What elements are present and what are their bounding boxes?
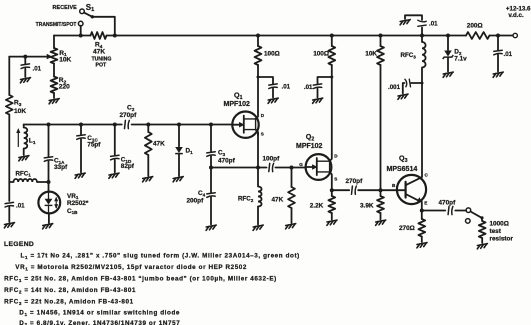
- wire rail to 100ohm2: [331, 36, 333, 47]
- wire feedback horizontal: [211, 167, 267, 169]
- transistor Q3 collector lead: [406, 177, 422, 185]
- diode D1: [175, 147, 183, 153]
- node gate-C3 junction: [209, 123, 213, 127]
- svg-text:47K: 47K: [272, 197, 284, 204]
- svg-text:MPF102: MPF102: [224, 101, 251, 108]
- node rail-100ohm1: [256, 34, 260, 38]
- capacitor 100pf coupling: [269, 163, 274, 171]
- ground below .001: [398, 94, 408, 99]
- svg-text:.01: .01: [429, 21, 438, 28]
- svg-text:.01: .01: [16, 203, 25, 210]
- resistor R4 47K tuning pot: [91, 32, 107, 39]
- svg-text:270Ω: 270Ω: [399, 225, 415, 232]
- wire feedthrough stub up: [421, 28, 423, 36]
- svg-text:test: test: [490, 228, 502, 235]
- ground below .01 right: [493, 72, 503, 77]
- svg-text:VR1 = Motorola R2502/MV2105, 1: VR1 = Motorola R2502/MV2105, 15pf varact…: [15, 264, 247, 271]
- svg-text:resistor: resistor: [490, 235, 514, 242]
- node Q2 drain elbow: [330, 76, 333, 79]
- wire R1 wiper arm: [9, 56, 48, 58]
- wire 47K follower to ground: [291, 208, 293, 223]
- svg-text:200pf: 200pf: [187, 198, 205, 205]
- ground below C1C: [75, 173, 85, 178]
- node rail-switch junction: [113, 34, 117, 38]
- wire elbow to bypass cap 2: [318, 77, 332, 84]
- wire rail to D2: [447, 36, 449, 51]
- svg-text:10K: 10K: [59, 57, 71, 64]
- svg-text:POT: POT: [96, 62, 107, 68]
- wire tank corner to L1: [23, 125, 25, 128]
- node emitter junction: [420, 209, 424, 213]
- wire cap to ground lower left: [8, 207, 10, 222]
- svg-text:.01: .01: [282, 84, 291, 91]
- varactor VR1 diode symbol: [45, 199, 53, 205]
- wire junction to cap .01: [24, 57, 26, 64]
- wire emitter to 470pf: [422, 210, 446, 212]
- varactor VR1 circle: [38, 192, 60, 214]
- wire 47K gate leak upper: [147, 125, 149, 133]
- ground below C1D: [109, 173, 119, 178]
- svg-text:10K: 10K: [14, 108, 26, 115]
- capacitor C2 270pf inline: [125, 120, 130, 128]
- inductor L1 slug tuned: [24, 128, 28, 149]
- transistor Q1 drain-source leads: [244, 119, 256, 130]
- wire 3.9K to ground: [380, 213, 382, 220]
- node rail-transmit junction: [79, 34, 83, 38]
- ground below bypass 1: [268, 98, 278, 103]
- capacitor .01 bypass 1: [269, 84, 277, 89]
- svg-text:S: S: [261, 131, 264, 136]
- wire Q3 emitter down: [421, 202, 423, 211]
- wire Q2 source down: [331, 177, 333, 190]
- capacitor C1D 82pf: [111, 155, 119, 160]
- wire 100ohm1 to elbow: [257, 65, 259, 77]
- ground below C4: [206, 225, 216, 230]
- wire wiper line down to R3: [8, 57, 10, 95]
- svg-text:470pf: 470pf: [439, 200, 457, 207]
- wire main +V rail center segment: [107, 35, 467, 37]
- wire 470pf to test point: [455, 210, 466, 212]
- zener D2: [444, 51, 452, 57]
- svg-text:10K: 10K: [365, 51, 377, 58]
- transistor Q2 channel bar: [316, 158, 318, 175]
- capacitor 470pf output: [448, 206, 453, 214]
- wire elbow to bypass cap 1: [258, 77, 273, 84]
- capacitor C3 470pf: [207, 152, 215, 157]
- wire C1C branch: [80, 125, 82, 135]
- svg-text:LEGEND: LEGEND: [4, 241, 34, 248]
- wire C3 to feedback node: [210, 156, 212, 167]
- ground below 2.2K: [327, 220, 337, 225]
- node C3-C4 junction: [209, 166, 213, 170]
- transistor Q3 MPS6514: [397, 175, 426, 204]
- wire D1 branch: [178, 125, 180, 147]
- wire C1D branch: [114, 125, 116, 156]
- svg-text:.001: .001: [388, 84, 401, 91]
- wire 270ohm branch: [421, 211, 423, 220]
- svg-text:470pf: 470pf: [218, 158, 236, 165]
- wire C3 branch: [210, 125, 212, 152]
- ground below RFC2: [253, 225, 263, 230]
- resistor 100ohm Q1 drain: [255, 46, 262, 65]
- resistor 270ohm: [418, 219, 425, 237]
- capacitor .01 feedthrough: [418, 20, 426, 26]
- node +12V supply terminal: [513, 33, 517, 37]
- inductor RFC2: [258, 187, 262, 207]
- svg-text:33pf: 33pf: [54, 164, 68, 171]
- resistor 47K gate leak: [145, 132, 152, 155]
- transistor Q3 bar: [405, 182, 407, 198]
- ground below bypass 2: [313, 98, 323, 103]
- transistor Q3 base lead: [397, 189, 405, 191]
- ground below VR1: [43, 224, 53, 229]
- node gate-D1 junction: [177, 123, 181, 127]
- transistor Q1 drain exit: [256, 112, 258, 119]
- svg-text:7.1v: 7.1v: [454, 56, 467, 63]
- wire VR1 to ground: [48, 213, 50, 223]
- wire D1 to ground: [178, 154, 180, 176]
- wire D2 to ground: [447, 58, 449, 72]
- wire 270ohm to ground: [421, 237, 423, 243]
- wire L1 to ground: [23, 149, 25, 156]
- node 100pf-47K junction: [290, 166, 294, 170]
- wire source node horizontal: [332, 189, 349, 191]
- svg-text:270pf: 270pf: [120, 112, 138, 119]
- wire R1 to R2: [53, 64, 55, 77]
- wire 47K follower branch: [291, 168, 293, 188]
- svg-text:47K: 47K: [153, 141, 165, 148]
- wire rail corner to R1: [53, 36, 55, 49]
- switch S1 arm: [84, 13, 92, 17]
- wire R3 to RFC1 junction: [8, 115, 10, 183]
- wire R2 to ground: [53, 93, 55, 98]
- svg-text:RFC1 = 25t No. 28, Amidon FB-4: RFC1 = 25t No. 28, Amidon FB-43-801 “jum…: [4, 276, 277, 283]
- wire 001 to ground: [403, 83, 405, 94]
- svg-text:100pf: 100pf: [263, 156, 281, 163]
- resistor R1 10K pot: [51, 48, 58, 64]
- wire main +V rail left segment: [54, 35, 91, 37]
- transistor Q2 drain exit: [330, 154, 332, 161]
- node base junction: [379, 188, 383, 192]
- ground below 3.9K: [376, 220, 386, 225]
- wire switch arm to rail: [92, 17, 115, 36]
- wire 47K to ground: [147, 155, 149, 176]
- svg-text:MPF102: MPF102: [296, 143, 323, 150]
- node RFC1-varactor junction: [47, 180, 51, 184]
- capacitor .001 bypass: [405, 79, 411, 87]
- wire bypass2 to ground: [317, 89, 319, 98]
- svg-text:47K: 47K: [93, 48, 105, 55]
- transistor Q2 gate lead: [306, 166, 314, 168]
- svg-text:.01: .01: [304, 84, 313, 91]
- ground below 47K gate leak: [143, 177, 153, 182]
- varactor VR1 arrow symbol: [55, 198, 57, 209]
- wire 001 stub: [411, 82, 422, 84]
- svg-text:RECEIVE: RECEIVE: [53, 5, 78, 11]
- node RFC3-001 junction: [421, 82, 424, 85]
- svg-text:D2 = 6.8/9.1v. Zener, 1N4736/1: D2 = 6.8/9.1v. Zener, 1N4736/1N4739 or 1…: [19, 320, 180, 325]
- resistor 2.2K: [328, 196, 335, 213]
- capacitor C1C 75pf: [77, 135, 85, 140]
- wire node to RFC2: [257, 168, 259, 187]
- ground below D2: [443, 72, 453, 77]
- wire Q3 collector up: [421, 68, 423, 177]
- ground below test resistor: [477, 244, 487, 249]
- wire rail to 100ohm 1: [257, 36, 259, 47]
- wire tank top rail: [24, 124, 122, 126]
- wire main +V rail right segment: [490, 35, 513, 37]
- node gate-47K junction: [146, 123, 150, 127]
- svg-text:.01: .01: [33, 66, 42, 73]
- wire rail to RFC3: [421, 36, 423, 43]
- resistor 3.9K: [377, 196, 384, 213]
- node Q1 drain elbow: [257, 76, 260, 79]
- wire C4 branch: [210, 168, 212, 193]
- node rail-100ohm2: [330, 34, 334, 38]
- capacitor .01 supply bypass: [494, 50, 502, 55]
- switch S1 transmit contact: [78, 21, 83, 26]
- capacitor C1A 33pf: [44, 157, 52, 162]
- resistor 10K bias: [377, 46, 384, 65]
- wire C1C to ground: [80, 139, 82, 172]
- transistor Q1 gate lead: [232, 124, 241, 126]
- resistor 1000ohm test: [479, 221, 486, 238]
- resistor 100ohm Q2 drain: [328, 46, 335, 65]
- transistor Q1 source exit: [256, 130, 258, 135]
- legend text block: [4, 241, 300, 325]
- node rail-RFC3 junction: [420, 34, 424, 38]
- svg-text:S: S: [334, 177, 337, 182]
- svg-text:3.9K: 3.9K: [360, 203, 374, 210]
- node test point upper contact: [466, 208, 471, 213]
- svg-text:75pf: 75pf: [87, 142, 101, 149]
- capacitor .01 wiper bypass: [21, 64, 29, 69]
- resistor R3 10K: [6, 95, 13, 115]
- node rail-10K: [379, 34, 383, 38]
- svg-text:100Ω: 100Ω: [264, 51, 280, 58]
- resistor 47K follower: [288, 187, 295, 208]
- node tank-C1A junction: [47, 123, 51, 127]
- svg-text:200Ω: 200Ω: [467, 23, 483, 30]
- wire C1A branch upper: [48, 125, 50, 157]
- switch S1 receive contact: [80, 9, 85, 14]
- node tank-C1D junction: [113, 123, 117, 127]
- node rail-D2 junction: [446, 34, 450, 38]
- arrow L1 tuning slug: [17, 131, 19, 147]
- capacitor C4 200pf: [207, 193, 215, 198]
- wire arm to test resistor: [481, 218, 484, 221]
- svg-text:220: 220: [59, 84, 70, 91]
- node wiper-cap junction: [23, 55, 27, 59]
- inductor RFC3: [422, 42, 426, 68]
- ground top feedthrough: [400, 20, 410, 25]
- svg-text:E: E: [424, 200, 427, 205]
- wire 10K down to base node: [380, 65, 382, 190]
- svg-text:TRANSMIT/SPOT: TRANSMIT/SPOT: [36, 22, 77, 28]
- wire test switch arm: [471, 212, 482, 218]
- wire 2.2K to ground: [331, 213, 333, 220]
- wire Q2 drain up: [331, 77, 333, 154]
- wire C1A to RFC1 node: [48, 161, 50, 192]
- ground lower left: [4, 223, 14, 228]
- svg-text:1000Ω: 1000Ω: [490, 221, 509, 228]
- ground below R2: [49, 99, 59, 104]
- wire 100ohm2 to elbow: [331, 65, 333, 77]
- svg-text:RFC3 = 22t No.28, Amidon FB-43: RFC3 = 22t No.28, Amidon FB-43-801: [4, 299, 134, 306]
- resistor R2 220: [51, 77, 58, 94]
- wire 2.2K branch: [331, 190, 333, 196]
- ground below 47K follower: [286, 224, 296, 229]
- wire bypass1 to ground: [272, 89, 274, 98]
- transistor Q2 MPF102: [306, 154, 332, 180]
- wire Q1 source to node: [257, 133, 259, 168]
- svg-text:.01: .01: [504, 51, 513, 58]
- wire C1D to ground: [114, 160, 116, 173]
- node Q2 source junction: [330, 188, 334, 192]
- wire RFC2 to ground: [257, 207, 259, 225]
- svg-text:2.2K: 2.2K: [310, 203, 324, 210]
- svg-text:D1 = 1N456, 1N914 or similar s: D1 = 1N456, 1N914 or similar switching d…: [19, 310, 180, 317]
- transistor Q2 drain-source leads: [317, 161, 330, 172]
- ground below L1: [19, 156, 29, 161]
- wire rail to 10K bias: [380, 36, 382, 47]
- node rail-01 right junction: [496, 34, 500, 38]
- svg-text:82pf: 82pf: [121, 163, 135, 170]
- wire .01 right to ground: [497, 55, 499, 72]
- capacitor .01 bypass 2: [313, 84, 321, 89]
- capacitor .01 tuning line bypass: [5, 202, 13, 207]
- capacitor 270pf coupling: [352, 186, 357, 194]
- ground below D1: [173, 177, 183, 182]
- svg-text:270pf: 270pf: [346, 178, 364, 185]
- wire test resistor to ground: [481, 238, 483, 243]
- svg-text:MPS6514: MPS6514: [387, 166, 418, 173]
- ground below 270ohm: [417, 243, 427, 248]
- wire 3.9K branch: [380, 190, 382, 196]
- transistor Q1 MPF102: [232, 112, 258, 138]
- node tank-C1C junction: [79, 123, 83, 127]
- wire rail to .01 right: [497, 36, 499, 51]
- wire transmit contact down: [80, 26, 82, 36]
- node test point lower contact: [466, 219, 471, 224]
- inductor RFC1: [14, 179, 38, 182]
- wire cap to ground: [24, 69, 26, 78]
- transistor Q3 emitter lead: [406, 194, 420, 201]
- node source-RFC2 junction: [256, 166, 260, 170]
- svg-text:100Ω: 100Ω: [313, 51, 329, 58]
- wire C4 to ground: [210, 197, 212, 224]
- wire feedthrough to ground: [405, 15, 422, 20]
- transistor Q1 channel bar: [243, 116, 245, 133]
- wire RFC1 node down to cap: [8, 182, 10, 201]
- svg-text:G: G: [299, 162, 303, 167]
- resistor 200 ohm: [466, 32, 490, 39]
- svg-text:RFC2 = 14t No. 28, Amidon FB-4: RFC2 = 14t No. 28, Amidon FB-43-801: [4, 287, 136, 294]
- svg-text:R2502*: R2502*: [67, 200, 89, 207]
- wire Q1 drain up: [257, 77, 259, 112]
- transistor Q2 source exit: [330, 172, 332, 177]
- ground below wiper cap: [20, 78, 30, 83]
- svg-text:v.d.c.: v.d.c.: [508, 12, 524, 19]
- svg-text:L1 = 17t No 24, .281” x .750”: L1 = 17t No 24, .281” x .750” slug tuned…: [21, 253, 300, 260]
